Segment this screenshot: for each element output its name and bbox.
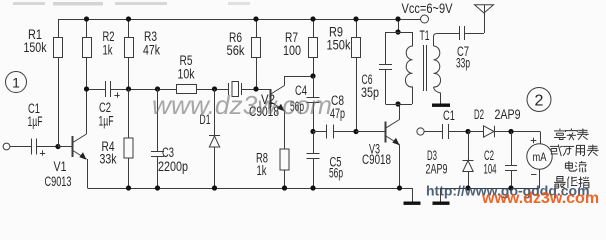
node D2 anode: [465, 129, 483, 134]
resistor R5: [177, 85, 197, 94]
transistor V3: [385, 120, 400, 146]
svg-text:V1: V1: [54, 159, 67, 174]
svg-text:56k: 56k: [227, 43, 245, 58]
label R2: [103, 29, 115, 44]
svg-text:C1: C1: [443, 108, 455, 123]
capacitor C2 meter: [505, 132, 517, 189]
resistor R1: [54, 19, 63, 147]
label C7: [457, 44, 469, 59]
resistor R2: [83, 19, 92, 89]
node D1 top: [212, 86, 217, 91]
label Vcc=6~9V: [402, 1, 453, 16]
node R2 top: [84, 16, 89, 21]
node Vcc tank: [395, 16, 400, 34]
svg-text:1k: 1k: [103, 43, 113, 58]
label C2: [99, 100, 111, 115]
transformer T1 core: [424, 45, 427, 91]
label R8: [256, 151, 268, 166]
node C2 bottom: [508, 185, 513, 190]
label V1 type: [45, 174, 72, 189]
svg-text:C9013: C9013: [45, 174, 72, 189]
node R3 bottom: [126, 86, 131, 91]
label R9 value: [327, 38, 351, 53]
label C2 value: [484, 162, 497, 177]
label R9: [329, 25, 343, 40]
node C2 top: [508, 129, 513, 134]
svg-text:2200p: 2200p: [158, 159, 188, 174]
svg-text:33k: 33k: [100, 152, 117, 167]
node tank bottom: [395, 101, 400, 106]
resistor R6: [252, 19, 261, 89]
label V2 type: [249, 104, 279, 119]
svg-text:mA: mA: [533, 150, 547, 164]
label C2 value: [99, 114, 114, 129]
label C4 value: [290, 99, 304, 114]
annotation line3 dian-liu: [565, 161, 586, 172]
wire tank bottom: [386, 104, 413, 106]
svg-text:150k: 150k: [24, 40, 47, 55]
label C1: [28, 101, 40, 116]
label C8: [331, 93, 344, 108]
resistor R4: [124, 89, 133, 188]
svg-text:104: 104: [484, 162, 497, 177]
mic input terminal: [3, 143, 31, 150]
node D1 bottom: [212, 185, 217, 190]
probe terminal: [417, 128, 443, 135]
diode D2: [484, 126, 541, 137]
label C8 value: [330, 106, 345, 121]
antenna: [475, 5, 494, 33]
label D2 type: [495, 107, 521, 122]
wire R9 to V3 base: [356, 131, 385, 133]
annotation line1 hao-an-biao: [554, 129, 589, 141]
label R6: [229, 30, 242, 45]
capacitor C6: [379, 65, 392, 105]
label V3 type: [362, 152, 391, 167]
capacitor C8: [313, 125, 356, 139]
label R3 value: [143, 43, 160, 58]
node R4 bottom: [126, 185, 131, 190]
capacitor C5: [307, 132, 320, 189]
svg-text:56p: 56p: [329, 166, 343, 181]
wire bottom ground rail: [88, 188, 413, 202]
node marker 2: [527, 88, 551, 112]
node C3 top: [155, 86, 160, 91]
label C3: [162, 145, 174, 160]
svg-text:33p: 33p: [456, 56, 470, 71]
ground T1 secondary: [432, 104, 450, 107]
label meter minus: [531, 174, 537, 176]
node R8 bottom: [282, 185, 287, 190]
resistor R9: [352, 19, 361, 132]
svg-text:T1: T1: [420, 28, 430, 43]
wire mid rail segment: [87, 89, 271, 91]
label C5 value: [329, 166, 343, 181]
capacitor C2: [106, 81, 120, 98]
label C2 meter: [484, 148, 494, 163]
node R7 bottom: [310, 73, 315, 78]
wire base: [58, 146, 72, 148]
svg-text:2AP9: 2AP9: [495, 107, 521, 122]
node C5 bottom: [310, 185, 315, 190]
svg-text:35p: 35p: [361, 85, 379, 100]
milliammeter: [527, 132, 552, 189]
node R9 bottom: [353, 129, 358, 134]
label D3 type: [426, 162, 448, 177]
wire V3 collector: [399, 104, 401, 120]
label C3 value: [158, 159, 188, 174]
capacitor C4: [307, 76, 320, 132]
node R9 top: [353, 16, 358, 21]
node R3 top: [126, 16, 131, 21]
watermark gray dz3w: [152, 90, 332, 120]
svg-text:47p: 47p: [330, 106, 345, 121]
label R4 value: [100, 152, 117, 167]
capacitor C3: [151, 89, 164, 188]
node R2 bottom: [84, 86, 89, 91]
label R1 value: [24, 40, 47, 55]
diode D1: [209, 89, 220, 188]
transformer T1 primary: [405, 32, 412, 104]
wire V2 emitter: [284, 111, 286, 150]
node R6 bottom: [253, 86, 258, 91]
node C4 bottom: [310, 129, 315, 134]
wire V3 emitter: [399, 145, 401, 189]
label V3: [369, 142, 380, 157]
annotation line4 zui-di-dang: [554, 177, 589, 189]
label R6 value: [227, 43, 245, 58]
label D1: [200, 112, 211, 127]
label C1 meter: [443, 108, 455, 123]
label C7 value: [456, 56, 470, 71]
transformer T1 secondary: [434, 34, 441, 104]
ground main rail: [404, 202, 421, 205]
node base V1: [55, 144, 60, 149]
label T1: [420, 28, 430, 43]
svg-text:2: 2: [535, 93, 544, 110]
capacitor C1 meter: [443, 124, 469, 139]
label C1 value: [28, 114, 43, 129]
resistor R8: [280, 149, 289, 188]
capacitor C1 input: [32, 139, 59, 156]
label R7 value: [283, 43, 301, 58]
scan artifact top streak: [13, 2, 250, 6]
label R3: [144, 29, 157, 44]
label R2 value: [103, 43, 113, 58]
svg-text:2AP9: 2AP9: [426, 162, 448, 177]
transistor V2: [270, 86, 285, 112]
diode D3: [463, 132, 474, 189]
Vcc terminal: [421, 15, 429, 23]
svg-text:Vcc=6~9V: Vcc=6~9V: [402, 1, 453, 16]
node D3 bottom: [465, 185, 470, 190]
svg-text:www.dz3w.com: www.dz3w.com: [481, 190, 599, 206]
label R5: [180, 53, 193, 68]
label C5: [330, 155, 342, 170]
label meter plus: [531, 138, 537, 144]
svg-text:100: 100: [283, 43, 301, 58]
label C6 value: [361, 85, 379, 100]
label V2: [261, 92, 275, 107]
wire V1 collector: [86, 89, 88, 134]
node R7 top: [310, 16, 315, 21]
label R8 value: [257, 163, 267, 178]
label R4: [102, 139, 115, 154]
node V3 emitter ground: [397, 185, 402, 190]
label C4: [295, 83, 307, 98]
label R7: [285, 30, 298, 45]
label C6: [362, 72, 373, 87]
node C3 bottom: [155, 185, 160, 190]
watermark blue gddq: [426, 183, 590, 199]
capacitor C7: [441, 26, 485, 40]
ground meter: [433, 202, 450, 205]
resistor R3: [125, 19, 134, 89]
annotation line2 huo-wan-yong-biao: [550, 145, 599, 157]
svg-text:C9018: C9018: [362, 152, 391, 167]
svg-text:D2: D2: [474, 107, 484, 122]
wire V2 collector: [285, 76, 314, 86]
label D2: [474, 107, 484, 122]
transistor V1: [72, 134, 87, 160]
node marker 1: [6, 72, 27, 93]
wire Vcc drop to tank: [398, 19, 400, 32]
wire meter return: [440, 188, 540, 202]
svg-text:150k: 150k: [327, 38, 351, 53]
svg-text:1µF: 1µF: [99, 114, 114, 129]
watermark red dz3w: [481, 190, 599, 207]
label D3: [427, 148, 437, 163]
svg-text:www.dz3w.com: www.dz3w.com: [152, 90, 332, 120]
label V1: [54, 159, 67, 174]
svg-text:1µF: 1µF: [28, 114, 43, 129]
svg-text:10k: 10k: [178, 67, 195, 82]
svg-text:1: 1: [12, 75, 20, 91]
wire V1 emitter: [87, 159, 89, 188]
svg-text:47k: 47k: [143, 43, 160, 58]
svg-text:C3: C3: [162, 145, 174, 160]
svg-text:1k: 1k: [257, 163, 267, 178]
label R5 value: [178, 67, 195, 82]
crystal B1: [229, 82, 242, 97]
label R1: [28, 27, 42, 42]
wire tank top: [386, 32, 413, 65]
resistor R7: [309, 19, 318, 76]
wire C1 to base: [0, 0, 1, 1]
node R6 top: [253, 16, 258, 21]
wire Vcc top rail: [58, 19, 421, 21]
